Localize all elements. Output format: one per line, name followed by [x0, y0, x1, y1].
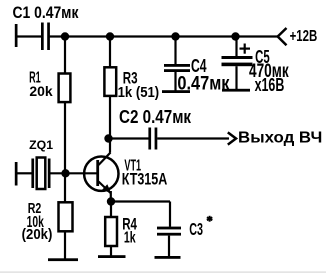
wire: base node to R2: [64, 175, 66, 202]
terminal: input left of C1: [15, 24, 18, 47]
transistor VT1 emitter lead: [99, 182, 111, 194]
capacitor C5 bottom plate: [222, 63, 253, 67]
wire: emitter node to R4: [110, 203, 112, 217]
svg-text:C3: C3: [189, 221, 203, 240]
transistor VT1 base bar: [96, 160, 99, 186]
label C3 asterisk: [207, 216, 212, 222]
capacitor C3 top plate: [157, 227, 181, 230]
svg-text:ZQ1: ZQ1: [29, 138, 53, 152]
capacitor C4 plates: [164, 64, 190, 72]
node: junction top rail / C4: [171, 32, 179, 40]
node: junction top rail / C5: [231, 32, 239, 40]
node: collector / C2 junction: [104, 134, 112, 142]
svg-text:x16В: x16В: [255, 76, 285, 96]
crystal ZQ1 body: [37, 158, 46, 190]
resistor R2 body: [59, 202, 73, 231]
wire: R3 to collector node: [109, 96, 111, 153]
ground under R4: [98, 255, 126, 258]
wire: C4 to ground: [174, 72, 176, 91]
transistor VT1 body circle: [84, 157, 118, 191]
node: junction top rail / R1: [61, 32, 69, 40]
wire: C3 to ground: [168, 236, 170, 257]
resistor R3 body: [104, 67, 116, 96]
svg-text:Выход ВЧ: Выход ВЧ: [238, 129, 322, 146]
wire: C5 to ground: [235, 66, 237, 90]
svg-text:1k: 1k: [124, 228, 136, 246]
ground under C3: [155, 256, 181, 259]
capacitor C3 bottom plate: [157, 233, 181, 236]
wire: R2 to ground: [64, 231, 66, 259]
wire: emitter node to C3: [113, 202, 170, 227]
connector arrow output: [228, 132, 236, 144]
wire: top rail to R1: [64, 39, 66, 74]
capacitor C5 top plate: [222, 56, 253, 59]
connector arrow +12V: [278, 28, 287, 45]
transistor VT1 collector lead: [99, 153, 111, 166]
capacitor C2 plates: [148, 128, 157, 150]
svg-text:КТ315А: КТ315А: [122, 171, 168, 189]
node: junction top rail / R3: [106, 32, 114, 40]
crystal ZQ1 left electrode: [31, 159, 34, 189]
svg-text:C2 0.47мк: C2 0.47мк: [119, 106, 191, 127]
svg-text:0.47мк: 0.47мк: [177, 72, 229, 93]
svg-text:20k: 20k: [29, 83, 52, 99]
ground under C5: [222, 89, 250, 92]
wire: R1 to base node: [64, 102, 66, 173]
node: emitter junction: [107, 197, 115, 205]
wire: terminal to ZQ1: [16, 172, 32, 174]
wire: R4 to ground: [110, 246, 112, 257]
terminal: input left of ZQ1: [15, 162, 18, 186]
crystal ZQ1 right electrode: [48, 159, 51, 189]
ground under C4: [162, 90, 190, 93]
node: base junction: [61, 169, 69, 177]
wire: collector node to C2: [112, 137, 149, 139]
wire: top rail to R3: [109, 39, 111, 68]
wire: VT1 emitter to emitter node: [110, 191, 112, 202]
wire: top +12V supply rail: [50, 35, 278, 37]
wire: input terminal to C1 left plate: [16, 35, 41, 37]
resistor R1 body: [59, 74, 71, 103]
polarity plus sign C5: [240, 44, 251, 54]
wire: ZQ1 to VT1 base: [50, 172, 97, 174]
wire: top rail to C4: [174, 39, 176, 65]
svg-text:+12В: +12В: [290, 27, 318, 44]
ground under R2: [48, 258, 78, 261]
svg-text:C1 0.47мк: C1 0.47мк: [12, 4, 78, 22]
wire: top rail to C5: [235, 39, 237, 57]
resistor R4 body: [105, 217, 117, 246]
wire: C2 to output arrow: [157, 137, 229, 139]
scan artifact bottom line: [0, 272, 326, 273]
svg-text:1k (51): 1k (51): [118, 83, 160, 100]
transistor VT1 emitter arrow: [102, 184, 111, 193]
svg-text:(20k): (20k): [22, 226, 53, 242]
capacitor C1 plates: [41, 23, 50, 51]
